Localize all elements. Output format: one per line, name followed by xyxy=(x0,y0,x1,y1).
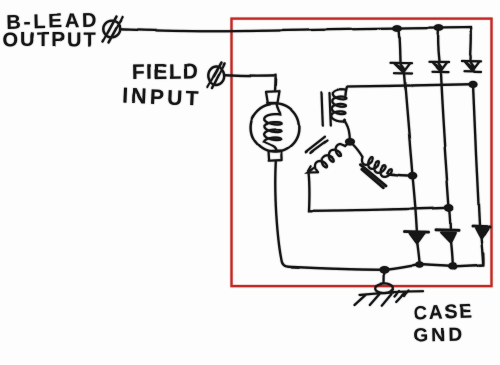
node top wire / D1 xyxy=(393,25,403,32)
wire diode column 1 (junction to top D1 / bottom D4) xyxy=(399,29,417,231)
case ground symbol xyxy=(355,272,424,305)
wire phase C to diode column 1 xyxy=(390,174,413,176)
diode D5 (bottom row, middle) xyxy=(436,230,459,264)
diode D2 (top row, middle) xyxy=(429,62,449,72)
stator core marks near coil A (top) xyxy=(322,92,331,126)
svg-text:GND: GND xyxy=(414,325,466,347)
svg-text:FIELD: FIELD xyxy=(132,60,200,84)
node phase A / col3 xyxy=(468,81,477,88)
diode D1 (top row, left) xyxy=(391,63,413,74)
stator coil B (left phase) with arrow end xyxy=(308,143,349,173)
svg-text:INPUT: INPUT xyxy=(122,84,202,110)
node phase C / col1 xyxy=(408,172,418,180)
diode D6 (bottom row, right) xyxy=(473,226,490,265)
label FIELD INPUT xyxy=(122,60,202,111)
wire phase A to diode junction xyxy=(346,84,474,95)
rotor slip-ring circle xyxy=(251,103,300,152)
wire phase B down and right to diode column 2 xyxy=(309,172,450,211)
wire top B-lead to diodes xyxy=(120,28,471,61)
red enclosure box xyxy=(232,19,492,287)
stator core marks near coil C (below right) xyxy=(361,164,386,187)
wire bottom bus xyxy=(289,253,483,270)
diode D3 (top row, right) xyxy=(462,61,481,72)
stator coil A (top phase) xyxy=(331,89,350,138)
svg-text:CASE: CASE xyxy=(413,301,474,324)
node ground tap xyxy=(379,266,389,274)
node D4 / bottom bus xyxy=(415,262,424,268)
stator coil C (right phase) xyxy=(353,144,395,177)
svg-text:OUTPUT: OUTPUT xyxy=(3,30,97,52)
wire diode column 2 xyxy=(438,29,450,230)
rotor coil (field winding) xyxy=(264,104,282,151)
label CASE GND xyxy=(413,301,474,346)
label B-LEAD OUTPUT xyxy=(3,10,99,52)
node D5 / bottom bus xyxy=(448,263,458,270)
wire diode column 3 xyxy=(473,85,480,226)
wire field input to rotor brush xyxy=(225,75,276,92)
stator core marks near coil B (left) xyxy=(306,137,328,153)
node stator neutral xyxy=(345,138,355,146)
terminal field input xyxy=(208,63,226,89)
node top wire / D2 xyxy=(434,25,444,32)
terminal B-lead output xyxy=(103,17,123,43)
rotor bottom brush xyxy=(268,151,282,161)
node phase B / col2 xyxy=(444,204,454,212)
rotor field winding: top brush xyxy=(266,91,280,103)
diode D4 (bottom row, left) xyxy=(405,232,429,264)
wire rotor bottom down to ground bus xyxy=(275,161,289,267)
